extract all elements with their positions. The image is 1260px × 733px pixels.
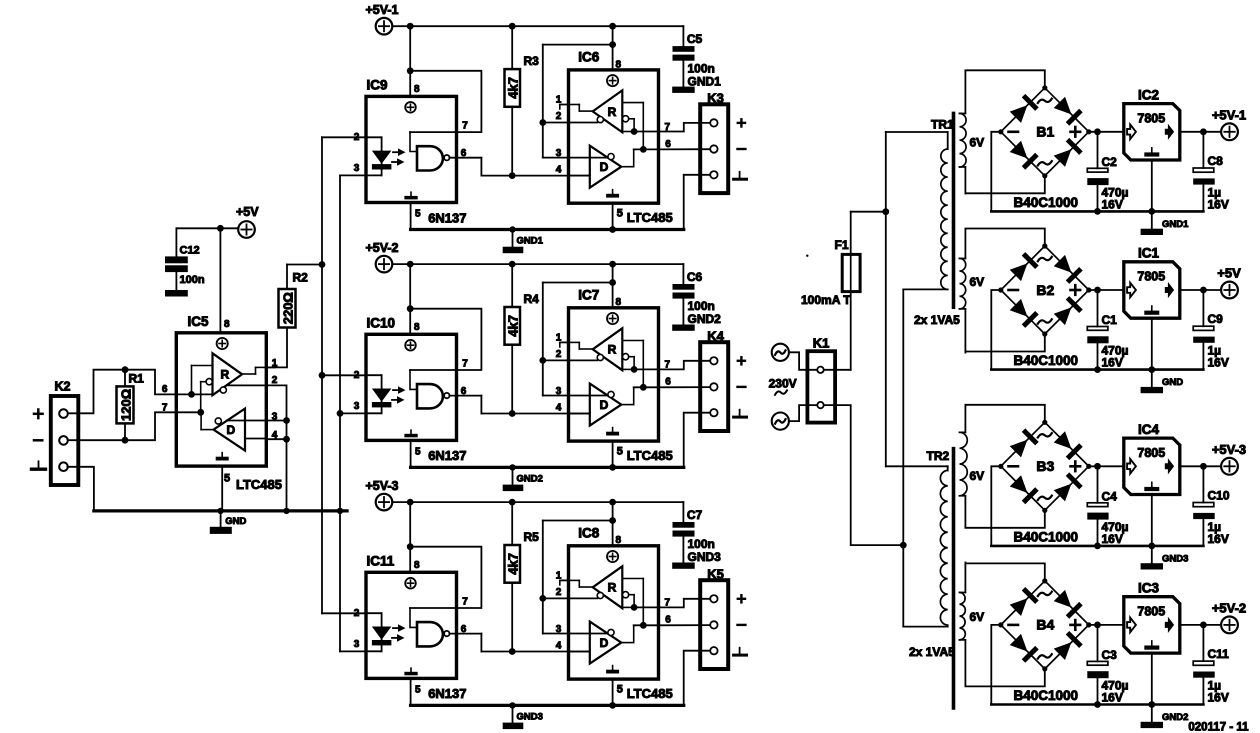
svg-text:+5V-2: +5V-2	[1212, 600, 1246, 615]
svg-text:8: 8	[616, 535, 622, 546]
svg-text:8: 8	[616, 297, 622, 308]
transformer TR2 primary winding	[886, 465, 948, 467]
node bus A (LED anodes, from R2)	[321, 137, 323, 613]
power symbol +5V-3	[1221, 458, 1238, 475]
GND1 bus	[411, 228, 684, 231]
wire IC10 pin6 output to IC7 pin4 (DI)	[449, 395, 481, 397]
resistor R5 4k7 pull-up	[511, 502, 513, 545]
svg-text:+5V-3: +5V-3	[366, 479, 399, 493]
output arrow (IC2)	[1165, 124, 1174, 140]
svg-text:C11: C11	[1208, 647, 1230, 661]
capacitor C5 100n	[682, 26, 684, 46]
wire B4 minus to ground rail	[991, 625, 1001, 705]
ground GND2	[512, 467, 514, 484]
capacitor C6 100n	[682, 264, 684, 284]
wire K1 lower to primaries return	[824, 405, 903, 545]
bridge rectifier B2 B40C1000	[1001, 246, 1089, 334]
diode B2 top-left	[1009, 252, 1039, 282]
ground pin symbol (K2)	[38, 461, 40, 467]
svg-text:IC1: IC1	[1138, 246, 1160, 261]
wire secondary to B2 AC top	[965, 229, 1044, 247]
regulator IC4 7805	[1124, 438, 1180, 494]
svg-text:2: 2	[354, 132, 360, 143]
wire IC4 ground pin	[1151, 495, 1153, 546]
wire B3 plus to IC4	[1089, 465, 1124, 467]
NAND gate inside IC9	[417, 146, 443, 170]
plus marker inside IC11	[405, 578, 416, 589]
transformer TR2 secondary winding upper 6V	[960, 432, 968, 496]
svg-text:D: D	[226, 423, 235, 437]
svg-text:7805: 7805	[1137, 111, 1165, 125]
diode B1 bottom-left	[1009, 140, 1039, 170]
svg-text:5: 5	[415, 684, 421, 695]
wire IC9 pin5 to GND1 bus	[410, 203, 412, 230]
svg-text:1: 1	[556, 95, 562, 106]
svg-text:020117 - 11: 020117 - 11	[1188, 722, 1249, 733]
diode B4 bottom-right	[1053, 631, 1083, 661]
light arrows inside IC9	[393, 151, 399, 153]
svg-text:6: 6	[665, 615, 671, 626]
light arrows inside IC11	[393, 627, 399, 629]
wire IC10 pin5 to GND2 bus	[410, 440, 412, 467]
wire secondary to B4 AC top	[965, 563, 1044, 581]
svg-text:6V: 6V	[970, 136, 985, 150]
wire +5V-3 rail	[392, 501, 683, 503]
fuse F1 100mA T	[842, 254, 860, 291]
svg-text:IC4: IC4	[1138, 422, 1160, 437]
svg-text:C2: C2	[1102, 155, 1118, 169]
capacitor C7 100n	[682, 502, 684, 522]
svg-text:GND3: GND3	[517, 712, 543, 723]
wire IC6 pin5 to GND1 bus	[609, 226, 616, 233]
svg-text:C9: C9	[1208, 312, 1224, 326]
ground pin symbol (K4)	[739, 410, 741, 417]
wire primary feed down to TR2	[885, 132, 887, 466]
capacitor C3 470u electrolytic	[1097, 625, 1099, 662]
svg-text:3: 3	[354, 639, 360, 650]
wire AC to K1	[789, 352, 817, 370]
svg-text:IC5: IC5	[188, 314, 210, 329]
ground rail (GND3)	[991, 545, 1203, 548]
wire B2 plus to IC1	[1089, 289, 1124, 291]
resistor R3 4k7 pull-up	[511, 26, 513, 69]
svg-text:C6: C6	[687, 270, 703, 284]
wire B1 plus to IC2	[1089, 131, 1124, 133]
ground rail (GND)	[991, 368, 1203, 371]
label + (K5)	[738, 598, 745, 600]
label - (K4)	[738, 386, 746, 388]
wire GND1 bus to K3 ground pin	[684, 175, 711, 230]
resistor R1 120R	[124, 370, 126, 387]
capacitor C2 470u electrolytic	[1097, 132, 1099, 169]
svg-text:B40C1000: B40C1000	[1014, 688, 1079, 703]
transformer TR1 secondary winding upper 6V	[960, 113, 967, 167]
svg-text:TR2: TR2	[927, 449, 950, 463]
svg-text:3: 3	[556, 148, 562, 159]
svg-text:3: 3	[556, 624, 562, 635]
ground GND2	[1141, 722, 1163, 728]
ground T inside IC9	[410, 192, 412, 196]
wire IC5 pin1 to R2	[266, 328, 287, 368]
wire F1 to transformer primaries	[850, 212, 852, 255]
GND bus (master)	[94, 509, 347, 512]
labels B2	[1038, 257, 1052, 261]
transformer TR2 secondary winding lower 6V	[960, 592, 966, 640]
svg-text:LTC485: LTC485	[627, 686, 673, 701]
svg-text:GND: GND	[1162, 377, 1183, 388]
wire GND2 bus to K4 ground pin	[684, 413, 711, 468]
diode B3 bottom-right	[1053, 472, 1083, 502]
svg-text:GND2: GND2	[517, 474, 543, 485]
svg-text:3: 3	[354, 163, 360, 174]
labels B1	[1038, 99, 1052, 103]
svg-text:LTC485: LTC485	[627, 448, 673, 463]
svg-text:8: 8	[414, 560, 420, 571]
svg-text:2x 1VA5: 2x 1VA5	[909, 645, 955, 659]
svg-text:C8: C8	[1208, 154, 1224, 168]
svg-text:+5V: +5V	[236, 205, 259, 219]
regulator IC3 7805	[1124, 597, 1180, 653]
svg-text:IC7: IC7	[578, 287, 599, 302]
svg-text:B40C1000: B40C1000	[1014, 529, 1079, 544]
input arrow (IC4)	[1127, 459, 1136, 474]
output arrow (IC1)	[1165, 282, 1174, 298]
svg-text:230V: 230V	[769, 377, 797, 391]
svg-text:4: 4	[556, 164, 562, 175]
resistor R4 4k7 pull-up	[511, 264, 513, 307]
svg-text:R: R	[220, 368, 229, 382]
diode B4 bottom-left	[1009, 633, 1039, 663]
svg-text:D: D	[600, 398, 609, 412]
svg-text:+5V: +5V	[1217, 266, 1241, 281]
svg-text:B40C1000: B40C1000	[1014, 195, 1079, 210]
svg-text:R1: R1	[129, 372, 145, 386]
svg-text:R5: R5	[524, 530, 540, 544]
svg-text:IC9: IC9	[367, 78, 388, 93]
capacitor C4 470u electrolytic	[1097, 466, 1099, 503]
ground pin symbol (K5)	[739, 648, 741, 655]
svg-text:1: 1	[556, 333, 562, 344]
svg-text:5: 5	[415, 446, 421, 457]
svg-text:B2: B2	[1036, 282, 1054, 298]
svg-text:5: 5	[617, 684, 623, 696]
ground T inside IC10	[410, 430, 412, 434]
transformer TR1 primary winding	[886, 131, 948, 133]
wire +5V-1 rail	[392, 25, 683, 27]
regulator IC2 7805	[1124, 104, 1180, 160]
ground GND3 (C7)	[672, 563, 695, 569]
svg-text:3: 3	[556, 386, 562, 397]
wire TR1 primary return	[902, 289, 904, 626]
power symbol +5V-2	[376, 256, 393, 273]
svg-text:TR1: TR1	[931, 118, 954, 132]
ground rail (GND1)	[991, 210, 1203, 213]
ground GND3	[1141, 563, 1163, 569]
svg-text:7805: 7805	[1137, 270, 1165, 284]
connector K4	[700, 342, 728, 431]
wire IC7 pin6 to K4 minus	[659, 386, 711, 388]
label - (K2)	[34, 439, 42, 442]
svg-text:B4: B4	[1036, 617, 1054, 633]
capacitor C9 1u	[1202, 290, 1204, 326]
svg-text:K1: K1	[813, 336, 830, 351]
svg-text:C5: C5	[687, 32, 703, 46]
wire IC9 pin6 output to IC6 pin4 (DI)	[449, 157, 481, 159]
transformer TR1 secondary winding lower 6V	[960, 258, 966, 309]
ground GND1	[512, 230, 514, 247]
wire IC8 pin6 to K5 minus	[659, 624, 711, 626]
optocoupler IC11 6N137	[366, 572, 457, 678]
LED inside IC11	[366, 612, 382, 614]
svg-text:6N137: 6N137	[428, 686, 466, 701]
svg-text:IC10: IC10	[367, 316, 396, 331]
svg-text:R4: R4	[524, 292, 540, 306]
resistor R2 220R	[279, 289, 296, 328]
output arrow (IC4)	[1165, 458, 1174, 474]
wire IC2 output to +5V-1	[1180, 131, 1221, 133]
wire K2 ground pin to GND bus	[68, 467, 221, 511]
svg-text:B3: B3	[1036, 458, 1054, 474]
transformer TR1 core	[952, 113, 956, 307]
svg-text:4: 4	[556, 402, 562, 413]
svg-text:6: 6	[665, 377, 671, 388]
svg-text:F1: F1	[835, 238, 849, 252]
diode B4 top-right	[1053, 589, 1083, 619]
wire B1 minus to ground rail	[991, 132, 1001, 212]
wire IC11 pin6 output to IC8 pin4 (DI)	[449, 633, 481, 635]
input arrow (IC2)	[1127, 125, 1136, 140]
svg-text:100mA T: 100mA T	[801, 293, 851, 307]
capacitor C11 1u	[1202, 625, 1204, 661]
svg-text:C10: C10	[1208, 488, 1230, 502]
capacitor C10 1u	[1202, 466, 1204, 502]
svg-text:R2: R2	[293, 271, 309, 285]
wire IC1 output to +5V	[1180, 289, 1221, 291]
svg-text:7: 7	[462, 358, 468, 369]
wire +5V rail to IC5 pin 8 and C12	[176, 227, 238, 229]
wire IC3 ground pin	[1151, 653, 1153, 704]
svg-text:D: D	[600, 160, 609, 174]
connector K2	[51, 396, 79, 485]
label - (K5)	[738, 624, 746, 626]
svg-text:GND1: GND1	[517, 236, 544, 247]
op-amp U-slave IC7 LTC485	[569, 308, 659, 441]
svg-text:GND2: GND2	[1162, 712, 1188, 723]
label + (K2)	[34, 413, 43, 416]
diode B3 top-right	[1053, 430, 1083, 460]
svg-text:16V: 16V	[1208, 532, 1229, 546]
output arrow (IC3)	[1165, 617, 1174, 633]
svg-text:4: 4	[556, 640, 562, 651]
svg-text:6: 6	[162, 384, 168, 395]
svg-text:2: 2	[354, 370, 360, 381]
LED inside IC9	[366, 136, 382, 138]
svg-text:8: 8	[616, 59, 622, 70]
wire K1 to fuse F1	[824, 369, 851, 371]
svg-text:IC8: IC8	[578, 525, 600, 540]
ground GND3	[512, 705, 514, 722]
diode B3 bottom-left	[1009, 474, 1039, 504]
input arrow (IC1)	[1127, 283, 1136, 298]
wire IC5 pins 2,3,4 tied to GND bus	[266, 385, 286, 511]
wire IC8 pin7 to K5 plus	[659, 599, 711, 608]
svg-text:16V: 16V	[1102, 532, 1123, 546]
AC source upper (230V)	[772, 344, 789, 361]
svg-text:8: 8	[224, 319, 230, 330]
svg-text:IC2: IC2	[1138, 87, 1159, 102]
svg-text:5: 5	[617, 208, 623, 220]
ground GND1 (C5)	[672, 87, 695, 93]
wire K2 minus to IC5 pin7 / R1	[68, 412, 177, 440]
ground GND (master)	[220, 511, 222, 527]
svg-text:100n: 100n	[688, 299, 715, 313]
diode B3 top-left	[1009, 428, 1039, 458]
power symbol +5V-1	[376, 18, 393, 35]
svg-text:GND3: GND3	[1162, 553, 1188, 564]
wire IC2 ground pin	[1151, 160, 1153, 211]
wire IC11 pin5 to GND3 bus	[410, 678, 412, 705]
svg-text:7805: 7805	[1137, 446, 1165, 460]
svg-text:2: 2	[556, 111, 562, 122]
transformer TR2 core	[952, 449, 956, 708]
svg-text:100n: 100n	[180, 274, 205, 286]
diode B4 top-left	[1009, 587, 1039, 617]
power symbol +5V-1	[1221, 123, 1238, 140]
diode B2 bottom-left	[1009, 298, 1039, 328]
light arrows inside IC10	[393, 389, 399, 391]
svg-text:+5V-3: +5V-3	[1212, 442, 1246, 457]
svg-text:C4: C4	[1102, 489, 1118, 503]
op-amp U-master IC5 LTC485 transceiver	[176, 333, 266, 466]
svg-text:6V: 6V	[970, 610, 985, 624]
ground (C12)	[165, 290, 188, 297]
wire IC9 pin7 to +5V	[410, 71, 481, 132]
wire IC1 ground pin	[1151, 318, 1153, 369]
capacitor C1 470u electrolytic	[1097, 290, 1099, 327]
op-amp U-slave IC6 LTC485	[569, 70, 659, 203]
svg-text:GND2: GND2	[688, 312, 722, 326]
labels B4	[1038, 592, 1052, 596]
svg-text:2x 1VA5: 2x 1VA5	[914, 313, 960, 327]
svg-text:D: D	[600, 636, 609, 650]
svg-text:6V: 6V	[970, 275, 985, 289]
svg-text:1: 1	[556, 571, 562, 582]
svg-text:6N137: 6N137	[428, 448, 466, 463]
svg-text:K2: K2	[55, 380, 71, 394]
svg-text:4k7: 4k7	[506, 315, 521, 337]
diode B2 bottom-right	[1053, 296, 1083, 326]
svg-text:R: R	[608, 581, 617, 595]
svg-text:3: 3	[354, 401, 360, 412]
svg-text:100n: 100n	[688, 537, 715, 551]
diode B2 top-right	[1053, 254, 1083, 284]
power symbol +5V (master)	[238, 221, 255, 238]
wire IC8 pin5 to GND3 bus	[609, 702, 616, 709]
svg-text:LTC485: LTC485	[627, 210, 673, 225]
wire IC6 pin6 to K3 minus	[659, 148, 711, 150]
wire IC11 pin8 supply	[409, 502, 411, 572]
ground GND2 (C6)	[672, 325, 695, 331]
stray dot	[806, 255, 808, 257]
svg-text:B1: B1	[1036, 124, 1054, 140]
svg-text:5: 5	[617, 446, 623, 458]
NAND gate inside IC11	[417, 622, 443, 646]
wire IC11 pin7 to +5V	[410, 547, 481, 608]
svg-text:120Ω: 120Ω	[118, 389, 133, 421]
wire K2 plus to IC5 pin6 / R1	[68, 370, 177, 414]
svg-text:7: 7	[462, 121, 468, 132]
svg-text:GND1: GND1	[688, 74, 722, 88]
power symbol +5V-2	[1221, 617, 1238, 634]
svg-text:R: R	[608, 343, 617, 357]
label - (K3)	[738, 148, 746, 150]
svg-text:4k7: 4k7	[506, 553, 521, 575]
svg-text:16V: 16V	[1208, 197, 1229, 211]
bridge rectifier B4 B40C1000	[1001, 581, 1089, 669]
wire IC10 pin8 supply	[409, 264, 411, 334]
svg-text:6: 6	[461, 148, 467, 159]
wire secondary to B4 AC bottom	[965, 669, 1044, 687]
svg-text:+5V-1: +5V-1	[366, 3, 399, 17]
diode B1 bottom-right	[1053, 138, 1083, 168]
svg-text:6: 6	[461, 386, 467, 397]
svg-text:C12: C12	[180, 245, 200, 257]
power symbol +5V-3	[376, 494, 393, 511]
power symbol +5V	[1221, 282, 1238, 299]
svg-text:2: 2	[556, 349, 562, 360]
svg-text:6N137: 6N137	[428, 210, 466, 225]
svg-text:K3: K3	[707, 90, 724, 105]
wire B4 plus to IC3	[1089, 624, 1124, 626]
capacitor C8 1u	[1202, 132, 1204, 168]
svg-text:2: 2	[354, 608, 360, 619]
ground pin symbol (K3)	[739, 172, 741, 179]
plus marker inside IC9	[405, 102, 416, 113]
bridge rectifier B1 B40C1000	[1001, 88, 1089, 176]
svg-text:C1: C1	[1102, 313, 1118, 327]
svg-text:+5V-2: +5V-2	[366, 241, 399, 255]
svg-text:8: 8	[414, 322, 420, 333]
label + (K3)	[738, 122, 745, 124]
ground GND1	[1141, 229, 1163, 235]
svg-text:4k7: 4k7	[506, 77, 521, 99]
svg-text:16V: 16V	[1208, 356, 1229, 370]
ground T inside IC1	[1151, 306, 1153, 311]
svg-text:IC3: IC3	[1138, 580, 1160, 595]
connector K3	[700, 104, 728, 193]
svg-text:16V: 16V	[1102, 356, 1123, 370]
svg-text:16V: 16V	[1208, 690, 1229, 704]
connector K1	[807, 351, 835, 422]
svg-text:6: 6	[665, 139, 671, 150]
svg-text:16V: 16V	[1102, 197, 1123, 211]
svg-text:2: 2	[272, 375, 278, 386]
LED inside IC10	[366, 374, 382, 376]
plus marker inside IC10	[405, 340, 416, 351]
svg-text:8: 8	[414, 84, 420, 95]
svg-text:GND3: GND3	[688, 550, 722, 564]
optocoupler IC9 6N137	[366, 96, 457, 202]
wire B2 minus to ground rail	[991, 290, 1001, 370]
wire secondary to B3 AC bottom	[965, 510, 1044, 528]
label + (K4)	[738, 360, 745, 362]
node bus B (LED cathodes, to GND)	[339, 175, 341, 651]
wire IC6 pin7 to K3 plus	[659, 123, 711, 132]
op-amp U-slave IC8 LTC485	[569, 546, 659, 679]
svg-text:7805: 7805	[1137, 604, 1165, 618]
ground rail (GND2)	[991, 703, 1203, 706]
bridge rectifier B3 B40C1000	[1001, 422, 1089, 510]
